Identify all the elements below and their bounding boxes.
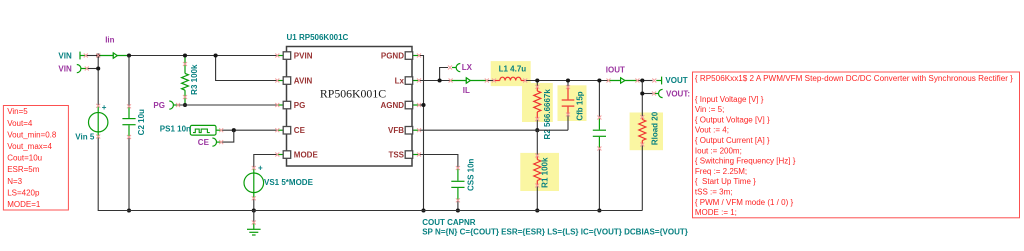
svg-text:{ PWM / VFM mode (1 / 0) }: { PWM / VFM mode (1 / 0) }: [695, 198, 794, 207]
wire C2 branch vertical: [128, 56, 130, 107]
current probe arrow IOUT: [621, 78, 625, 83]
pin MODE: [278, 150, 319, 159]
connection x-marks: [84, 54, 657, 225]
capacitor COUT (output cap): [593, 81, 606, 211]
svg-text:IOUT: IOUT: [606, 65, 625, 74]
node junction at 129,55.5: [127, 53, 131, 57]
pin VFB: [388, 126, 419, 135]
wire PG to pin: [179, 104, 278, 106]
node junction PGND-vertical on rail: [421, 208, 425, 212]
svg-text:+: +: [102, 103, 107, 112]
pin Lx: [395, 76, 419, 85]
voltage source V1 Vin 5: [89, 103, 108, 138]
svg-text:LS=420p: LS=420p: [7, 188, 40, 197]
node junction R1 on rail: [535, 208, 539, 212]
svg-text:AGND: AGND: [380, 101, 404, 110]
node junction VS1 on rail: [252, 208, 256, 212]
ground symbol: [247, 211, 261, 236]
highlight box for resistor R2: [522, 83, 553, 122]
wire current-probe segment IL (green): [451, 80, 488, 82]
svg-text:MODE := 1;: MODE := 1;: [695, 208, 737, 217]
node junction COUT top: [597, 78, 601, 82]
svg-text:R1 100k: R1 100k: [540, 157, 549, 188]
wire TSS to CSS: [419, 155, 458, 169]
svg-text:CE: CE: [294, 126, 306, 135]
pin TSS: [388, 150, 418, 159]
wire VOUT: probe tee: [642, 93, 652, 95]
node junction COUT on rail: [597, 208, 601, 212]
svg-text:R2 566.6667k: R2 566.6667k: [543, 89, 552, 140]
description text box (right): [693, 72, 1020, 218]
svg-text:PG: PG: [294, 101, 306, 110]
inductor L1 4.7u: [494, 77, 525, 80]
wire VFB net: [419, 129, 569, 131]
wire Lx to L1: [419, 80, 452, 82]
svg-text:Vout := 4;: Vout := 4;: [695, 126, 729, 135]
terminal VOUT: [656, 77, 661, 85]
svg-text:Iout := 200m;: Iout := 200m;: [695, 146, 742, 155]
wire CE probe to junction: [222, 130, 234, 142]
svg-text:VFB: VFB: [388, 126, 404, 135]
svg-text:L1 4.7u: L1 4.7u: [499, 64, 527, 73]
wire vertical to source V1: [97, 56, 99, 107]
node junction at 98,55.5: [96, 53, 100, 57]
highlight box for capacitor Cfb: [558, 85, 587, 121]
node junction CE: [232, 128, 236, 132]
svg-text:PS1 10n: PS1 10n: [160, 125, 191, 134]
svg-text:IL: IL: [463, 86, 470, 95]
probe LX: [452, 64, 460, 72]
pin AGND: [380, 101, 418, 110]
wire V1 bottom to ground rail: [98, 138, 129, 211]
current probe arrow IL: [466, 78, 470, 83]
pin PG: [278, 101, 306, 110]
probe VIN (curve): [77, 65, 87, 73]
resistor R1 100k: [536, 130, 538, 155]
node junction AGND: [421, 103, 425, 107]
svg-text:VIN: VIN: [58, 64, 72, 73]
probe PG: [169, 101, 178, 109]
wire ground rail: [98, 210, 642, 212]
node junction AVIN top: [214, 53, 218, 57]
svg-text:Iin: Iin: [105, 36, 114, 45]
current probe arrow Iin: [113, 53, 117, 58]
pin AVIN: [278, 76, 313, 85]
node junction Cfb top: [566, 78, 570, 82]
node junction C2 on rail: [127, 208, 131, 212]
svg-text:PVIN: PVIN: [294, 51, 313, 60]
node junction at 98,68.5: [96, 66, 100, 70]
wire MODE to VS1: [254, 155, 278, 169]
wire LX probe tap: [440, 68, 448, 81]
parameter text box (left): [3, 106, 68, 211]
svg-text:U1 RP506K001C: U1 RP506K001C: [287, 33, 349, 42]
svg-text:Vout=4: Vout=4: [7, 119, 33, 128]
wire Rload vertical: [641, 81, 643, 118]
svg-text:{ Start Up Time }: { Start Up Time }: [695, 177, 756, 186]
svg-text:{ Input Voltage [V] }: { Input Voltage [V] }: [695, 95, 764, 104]
wire CSS to rail: [457, 200, 459, 211]
svg-text:PG: PG: [153, 101, 165, 110]
svg-text:Vin 5: Vin 5: [75, 133, 95, 142]
voltage source VS1 5*MODE: [244, 164, 264, 200]
pin PVIN: [278, 51, 313, 60]
resistor Rload 20: [639, 117, 646, 145]
node junction R3 bottom on PG wire: [183, 103, 187, 107]
wire current-probe segment IOUT (green): [608, 80, 638, 82]
svg-text:+: +: [258, 164, 263, 173]
svg-text:RP506K001C: RP506K001C: [320, 87, 386, 101]
svg-text:tSS := 3m;: tSS := 3m;: [695, 188, 733, 197]
pulse source PS1 10n: [190, 125, 221, 135]
pin PGND: [381, 51, 419, 60]
svg-text:VOUT:: VOUT:: [666, 89, 690, 98]
svg-text:Rload 20: Rload 20: [651, 111, 660, 145]
op-amp/IC U1 RP506K001C body: [287, 47, 413, 167]
svg-text:C2 10u: C2 10u: [137, 109, 146, 135]
node junction LX tap: [438, 78, 442, 82]
capacitor Cfb 15p: [567, 81, 569, 87]
node junction CSS on rail: [456, 208, 460, 212]
svg-text:Vout_max=4: Vout_max=4: [7, 142, 52, 151]
wire VIN probe to vertical: [87, 68, 98, 70]
svg-text:{ Switching Frequency [Hz] }: { Switching Frequency [Hz] }: [695, 157, 796, 166]
wire current-probe segment Iin (green): [98, 55, 129, 57]
node junction output/Rload: [640, 78, 644, 82]
pin CE: [278, 126, 306, 135]
probe CE: [212, 138, 221, 146]
svg-text:Vin := 5;: Vin := 5;: [695, 105, 724, 114]
wire PS1 to CE pin: [222, 129, 278, 131]
svg-text:COUT CAPNR: COUT CAPNR: [422, 218, 476, 227]
resistor R2 566.6667k: [536, 81, 538, 86]
wire PGND to ground vertical: [419, 56, 424, 211]
wire AVIN branch: [216, 56, 278, 81]
terminal VIN: [80, 52, 86, 60]
capacitor CSS 10n: [451, 168, 464, 200]
probe VOUT:: [655, 89, 663, 97]
svg-text:CE: CE: [198, 138, 210, 147]
svg-text:{ Output Voltage [V] }: { Output Voltage [V] }: [695, 115, 770, 124]
svg-text:AVIN: AVIN: [294, 76, 313, 85]
wire to VOUT terminal: [638, 80, 653, 82]
svg-text:Lx: Lx: [395, 76, 405, 85]
svg-text:TSS: TSS: [388, 150, 404, 159]
svg-text:Vin=5: Vin=5: [7, 107, 28, 116]
svg-text:CSS 10n: CSS 10n: [467, 158, 476, 191]
highlight box for resistor R1: [520, 153, 559, 191]
svg-text:Vout_min=0.8: Vout_min=0.8: [7, 130, 57, 139]
svg-text:MODE: MODE: [294, 150, 319, 159]
svg-text:Cout=10u: Cout=10u: [7, 154, 42, 163]
wire VS1 bottom to rail: [253, 199, 255, 211]
svg-text:VOUT: VOUT: [665, 76, 687, 85]
node junction R3 top: [183, 53, 187, 57]
node junction R2 top: [535, 78, 539, 82]
wire L1 to output node: [525, 80, 608, 82]
svg-text:LX: LX: [462, 63, 473, 72]
node junction R2 bottom / R1 top: [535, 128, 539, 132]
wire Cfb bottom to VFB wire: [567, 114, 569, 131]
svg-text:N=3: N=3: [7, 177, 22, 186]
svg-text:R3 100k: R3 100k: [190, 64, 199, 95]
svg-text:Freq := 2.25M;: Freq := 2.25M;: [695, 167, 747, 176]
highlight box for resistor Rload: [630, 113, 663, 151]
wire AGND to vertical: [419, 104, 424, 106]
svg-text:{ RP506Kxx1$ 2 A PWM/VFM Step-: { RP506Kxx1$ 2 A PWM/VFM Step-down DC/DC…: [695, 74, 1013, 83]
svg-text:SP N={N} C={COUT} ESR={ESR} LS: SP N={N} C={COUT} ESR={ESR} LS={LS} IC={…: [422, 228, 688, 237]
wire VIN top rail y=55.5: [86, 55, 98, 57]
svg-text:PGND: PGND: [381, 51, 404, 60]
svg-text:Cfb 15p: Cfb 15p: [576, 91, 585, 120]
svg-text:MODE=1: MODE=1: [7, 200, 41, 209]
svg-text:VS1 5*MODE: VS1 5*MODE: [264, 178, 314, 187]
highlight box for inductor L1: [491, 61, 531, 86]
wire IL to L1: [488, 80, 494, 82]
svg-text:VIN: VIN: [58, 52, 72, 61]
capacitor C2 10u: [122, 107, 135, 138]
svg-text:ESR=5m: ESR=5m: [7, 165, 40, 174]
resistor R3 100k (green): [182, 56, 189, 106]
svg-text:{ Output Current [A] }: { Output Current [A] }: [695, 136, 770, 145]
node junction VOUT: tee: [640, 91, 644, 95]
